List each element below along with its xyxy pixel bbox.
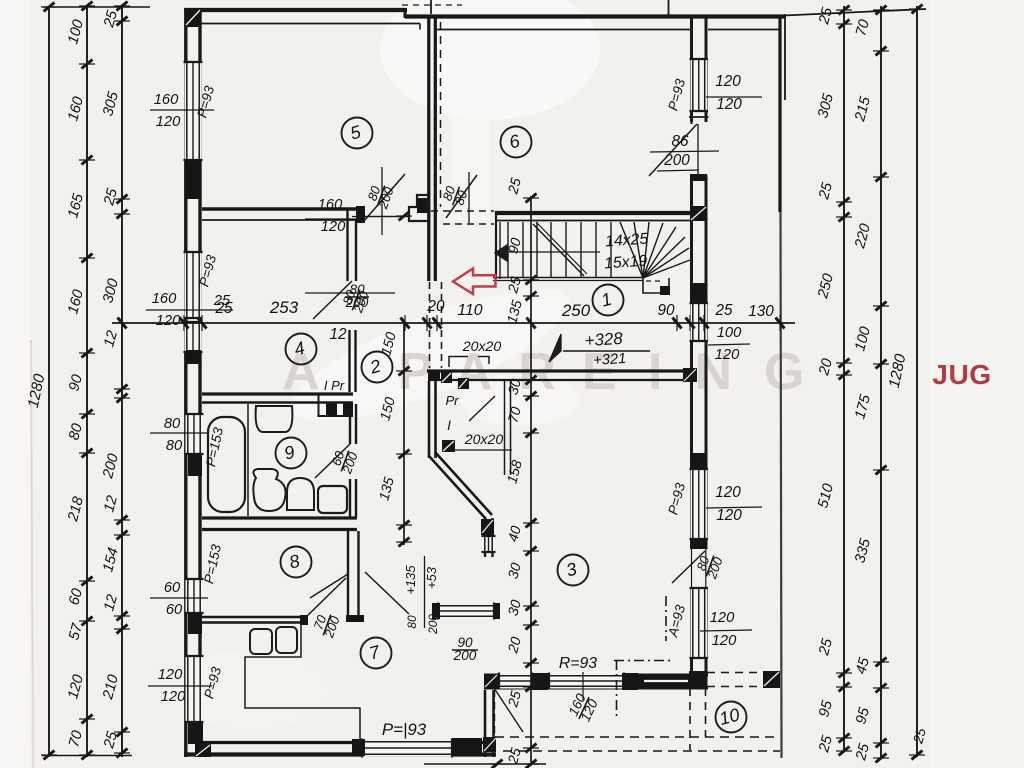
step under stairs bbox=[643, 278, 669, 293]
left wall block below window A bbox=[185, 160, 202, 199]
svg-text:250: 250 bbox=[561, 301, 591, 320]
tick left-inner y616 bbox=[117, 612, 128, 621]
niche squares with hatch bbox=[441, 372, 452, 383]
washbasin bbox=[256, 406, 293, 432]
left wall block y722 bbox=[188, 722, 203, 744]
center passage dashed x429-441 y282-368 bbox=[429, 282, 431, 368]
room circle 5 bbox=[342, 118, 373, 149]
diagonal wall to room3 bbox=[429, 456, 486, 519]
tick left-mid y64 bbox=[82, 60, 93, 69]
svg-text:120: 120 bbox=[321, 219, 346, 235]
SE wall solid right part bbox=[638, 674, 692, 688]
svg-text:120: 120 bbox=[716, 507, 742, 524]
label 60/200 bathroom door bbox=[327, 445, 361, 477]
corridor wall right hatch block bbox=[683, 368, 697, 382]
flue shaft outline 20x20 bbox=[449, 357, 489, 368]
bottom centre dim line bbox=[424, 763, 546, 765]
tick left-inner y389 bbox=[117, 385, 128, 394]
svg-text:200: 200 bbox=[345, 295, 369, 310]
svg-text:25: 25 bbox=[714, 302, 733, 319]
label 80/200 room4 door upper bbox=[345, 282, 369, 310]
svg-text:I: I bbox=[447, 418, 451, 433]
tick y323 x427 bbox=[423, 318, 432, 329]
right wall door swing lower bbox=[672, 551, 705, 583]
tick x405 y542 bbox=[399, 538, 410, 547]
sill line window E bbox=[148, 685, 212, 687]
svg-text:80: 80 bbox=[166, 438, 183, 454]
room circle 4 bbox=[286, 334, 317, 365]
left wall block y613 bbox=[188, 613, 202, 634]
tick left-inner y6 bbox=[117, 2, 128, 11]
left wall window D 60/60 bbox=[186, 579, 203, 613]
red arrow pointing left bbox=[453, 269, 496, 295]
tick y323 x437 bbox=[433, 318, 442, 329]
svg-text:+135: +135 bbox=[403, 565, 418, 595]
room circle 8 bbox=[281, 547, 312, 578]
svg-text:120: 120 bbox=[161, 689, 186, 705]
terrace door swing bbox=[494, 688, 523, 732]
tick right-2 y758 bbox=[876, 754, 887, 763]
top wall outer left segment bbox=[184, 8, 407, 12]
svg-text:Pr: Pr bbox=[446, 393, 460, 408]
svg-text:120: 120 bbox=[156, 313, 181, 329]
right wall bottom dark block bbox=[689, 671, 706, 688]
terrace dashed verticals bbox=[689, 688, 691, 750]
wall room4 right x346-357 bbox=[346, 209, 348, 281]
room circle 3 bbox=[558, 555, 589, 586]
room8 door swings bbox=[310, 574, 348, 598]
room circle 10 bbox=[716, 702, 747, 733]
left wall window A bbox=[185, 62, 202, 160]
tick left-mid y755 bbox=[82, 751, 93, 760]
svg-text:200: 200 bbox=[426, 614, 440, 635]
stairwell top wall bbox=[495, 211, 690, 215]
label 70/200 kitchen door bbox=[309, 609, 343, 641]
tick x405 y454 bbox=[399, 450, 410, 459]
toilet bbox=[253, 469, 285, 511]
door 86 swing diagonal bbox=[649, 124, 697, 176]
tick y323 x780 bbox=[776, 318, 785, 329]
niche hatch square lower bbox=[442, 440, 455, 452]
tick left-inner y732 bbox=[117, 728, 128, 737]
bathtub bbox=[208, 417, 245, 512]
bottom wall window bbox=[362, 740, 452, 757]
mid dim chain x405 bbox=[403, 323, 405, 545]
center wall dashed axis right bbox=[440, 22, 442, 207]
stairwell left wall bbox=[495, 211, 497, 279]
room3 left wall hatch block bbox=[481, 519, 494, 535]
tick x405 y525 bbox=[399, 521, 410, 530]
svg-text:14x25: 14x25 bbox=[605, 231, 649, 251]
svg-text:160: 160 bbox=[318, 197, 343, 213]
corridor wall left block bbox=[428, 371, 440, 381]
corridor-room3 window posts bbox=[432, 603, 440, 619]
partition x504-510 below corridor bbox=[504, 381, 506, 475]
niche door swing bbox=[469, 396, 495, 421]
SE wall hatch block left bbox=[484, 674, 498, 689]
sill line window B bbox=[146, 309, 233, 311]
tick y323 x405 bbox=[401, 318, 410, 329]
bath separator line bbox=[247, 404, 249, 516]
tick left-inner y398 bbox=[117, 394, 128, 403]
tick right-2 y662 bbox=[876, 658, 887, 667]
right wall cap below door bbox=[690, 174, 707, 181]
room circle 6 bbox=[501, 127, 532, 158]
label 80/200 lower right bbox=[692, 550, 726, 582]
tick left-mid y453 bbox=[82, 449, 93, 458]
tick right-2 y688 bbox=[876, 684, 887, 693]
right dim chain 1 line bbox=[843, 6, 845, 751]
stair winder fan bbox=[620, 222, 643, 278]
right wall window top 120/120 bbox=[691, 59, 708, 111]
walking line arrow bbox=[495, 245, 507, 261]
tick right-1 y375 bbox=[839, 371, 850, 380]
tick right-1 y363 bbox=[839, 359, 850, 368]
right wall dark cap y539 bbox=[691, 539, 707, 549]
svg-text:120: 120 bbox=[158, 667, 183, 683]
tick x531 y748 bbox=[526, 744, 537, 753]
tick x531 y433 bbox=[526, 429, 537, 438]
tick y323 x184 bbox=[180, 318, 189, 329]
svg-text:+53: +53 bbox=[424, 566, 439, 589]
kitchen door cap bbox=[300, 615, 308, 625]
tick right-1 y10 bbox=[839, 6, 850, 15]
svg-text:20x20: 20x20 bbox=[464, 431, 504, 447]
hatch block stair right wall bbox=[690, 206, 707, 221]
stepped pier left of center wall bbox=[409, 195, 429, 221]
svg-text:20: 20 bbox=[426, 298, 445, 315]
svg-text:160: 160 bbox=[154, 92, 179, 108]
tick left-mid y160 bbox=[82, 156, 93, 165]
svg-text:253: 253 bbox=[269, 298, 299, 317]
tick x531 y296 bbox=[526, 292, 537, 301]
label 80/200 room4 door bbox=[338, 284, 372, 316]
right wall door 86/200 bbox=[690, 122, 708, 175]
right dim outer 1280 line bbox=[916, 6, 918, 757]
svg-text:120: 120 bbox=[156, 114, 181, 130]
terrace pillar bbox=[763, 671, 780, 688]
svg-text:+321: +321 bbox=[593, 351, 627, 369]
svg-text:12: 12 bbox=[329, 326, 347, 343]
tick y323 x677 bbox=[673, 318, 682, 329]
svg-text:100: 100 bbox=[717, 325, 742, 341]
bathroom bottom wall y516-531 bbox=[202, 516, 357, 519]
tick right-1 y687 bbox=[839, 683, 850, 692]
bathroom top wall y392-404 bbox=[202, 392, 353, 395]
left wall top corner block bbox=[185, 9, 202, 27]
tick right-1 y738 bbox=[839, 734, 850, 743]
mid dim chain x531 bbox=[530, 196, 532, 762]
left wall block y455 bbox=[188, 454, 202, 476]
tick left-mid y621 bbox=[82, 617, 93, 626]
tick right-2 y364 bbox=[876, 360, 887, 369]
bathroom right wall lower piece bbox=[349, 479, 351, 517]
svg-text:160: 160 bbox=[152, 291, 177, 307]
room circle 9 bbox=[276, 438, 307, 469]
label 80/80 door room6 side bbox=[438, 181, 471, 209]
WC niche dark squares bbox=[326, 403, 337, 415]
svg-text:110: 110 bbox=[457, 302, 482, 319]
SE vertical wall x484-494 bbox=[484, 690, 487, 757]
watermark SPARE ING bbox=[282, 343, 836, 401]
right dim top connector bbox=[784, 9, 926, 16]
right wall window 120/120 mid bbox=[691, 469, 708, 539]
right wall dark sill above landing window bbox=[691, 283, 708, 303]
bidet bbox=[287, 478, 314, 510]
corridor-room3 window bbox=[438, 604, 494, 619]
bottom left chain connector bbox=[42, 755, 132, 757]
right wall window top sill bbox=[689, 116, 709, 118]
tick left-mid y258 bbox=[82, 254, 93, 263]
top wall inner left segment bbox=[201, 23, 420, 25]
top wall small dashes bbox=[402, 4, 462, 6]
label 80/200 door room5 bbox=[363, 180, 397, 212]
top wall inner right segment bbox=[437, 29, 690, 31]
right edge wall thick top bbox=[778, 16, 781, 212]
tick y323 x704 bbox=[700, 318, 709, 329]
kitchen counter outline bbox=[245, 625, 360, 741]
tick y323 x690 bbox=[686, 318, 695, 329]
terrace dashed top lines bbox=[707, 672, 762, 674]
wall room5 doorway posts and swings bbox=[356, 206, 365, 223]
label 160/120 rotated bbox=[565, 691, 601, 725]
tick x531 y396 bbox=[526, 392, 537, 401]
svg-text:I Pr: I Pr bbox=[324, 378, 345, 393]
tick right-1 y217 bbox=[839, 213, 850, 222]
tick x531 y625 bbox=[526, 621, 537, 630]
tick right-2 y743 bbox=[876, 739, 887, 748]
svg-text:80: 80 bbox=[164, 416, 181, 432]
top wall outer right segment bbox=[405, 14, 786, 18]
room8 wall bottom cap bbox=[346, 615, 364, 622]
WC niche walls bbox=[318, 394, 320, 417]
tick right-1 y202 bbox=[839, 198, 850, 207]
svg-text:120: 120 bbox=[715, 484, 741, 501]
svg-text:60: 60 bbox=[166, 602, 183, 618]
bottom wall window left post bbox=[352, 739, 365, 756]
tick left-mid y719 bbox=[82, 715, 93, 724]
tick right outer top bbox=[912, 5, 923, 14]
center wall x427-437 bbox=[427, 16, 430, 281]
terrace dashed bottom lines bbox=[495, 736, 780, 738]
tick right-2 y470 bbox=[876, 466, 887, 475]
stair walking line bbox=[506, 251, 600, 253]
right wall dark block y453 bbox=[691, 453, 705, 469]
tick left-mid y353 bbox=[82, 349, 93, 358]
svg-text:15x19: 15x19 bbox=[604, 253, 648, 273]
left wall window B bbox=[185, 252, 202, 318]
level fraction +135/+53 bbox=[424, 556, 426, 628]
left exterior wall outer line bbox=[184, 8, 187, 757]
tick right-2 y177 bbox=[876, 173, 887, 182]
tick x405 y371 bbox=[399, 367, 410, 376]
tick left-mid y414 bbox=[82, 410, 93, 419]
svg-text:120: 120 bbox=[716, 96, 742, 113]
center wall lower x428-436 y381-458 bbox=[428, 381, 431, 458]
sill line window D bbox=[150, 597, 208, 599]
SE wall post 2 bbox=[622, 673, 638, 690]
svg-text:+328: +328 bbox=[584, 329, 624, 351]
room circle 2 bbox=[362, 352, 393, 383]
tick right outer bottom bbox=[912, 751, 923, 760]
top wall inner far right segment bbox=[708, 29, 779, 31]
svg-text:120: 120 bbox=[715, 73, 741, 90]
tick x531 y687 bbox=[526, 683, 537, 692]
tick left-mid y581 bbox=[82, 577, 93, 586]
tick left-inner y214 bbox=[117, 210, 128, 219]
right dim chain 2 line bbox=[880, 6, 882, 758]
tick left-inner y629 bbox=[117, 625, 128, 634]
tick x531 y551 bbox=[526, 547, 537, 556]
tick right-2 y51 bbox=[876, 47, 887, 56]
tick x531 y380 bbox=[526, 376, 537, 385]
svg-text:86: 86 bbox=[671, 133, 689, 150]
bathroom door swing bbox=[315, 444, 350, 478]
svg-text:90: 90 bbox=[657, 302, 675, 319]
tick left-inner y21 bbox=[117, 17, 128, 26]
label 90/200 bbox=[452, 635, 478, 663]
kitchen door swing bbox=[306, 578, 346, 617]
svg-text:120: 120 bbox=[710, 610, 735, 626]
svg-text:60: 60 bbox=[164, 580, 181, 596]
tick right-1 y24 bbox=[839, 20, 850, 29]
tick right-1 y751 bbox=[839, 747, 850, 756]
SE wall window 2 bbox=[549, 674, 624, 689]
svg-text:120: 120 bbox=[712, 633, 737, 649]
tick left-inner y520 bbox=[117, 516, 128, 525]
right wall window 120/120 bottom A=93 bbox=[691, 588, 708, 658]
svg-text:20x20: 20x20 bbox=[462, 338, 502, 354]
tick right-1 y673 bbox=[839, 669, 850, 678]
tick y323 x202 bbox=[198, 318, 207, 329]
page crease line bbox=[31, 340, 33, 768]
svg-text:200: 200 bbox=[663, 152, 690, 169]
SE wall window 1 bbox=[499, 674, 532, 689]
kitchen top wall y615-624 bbox=[202, 616, 306, 619]
stair treads bbox=[507, 222, 509, 277]
tick y323 x122 bbox=[118, 318, 127, 329]
tick x531 y606 bbox=[526, 602, 537, 611]
tick right-2 y10 bbox=[876, 6, 887, 15]
terrace dashed vertical x494 bbox=[494, 690, 496, 734]
door room4 swing bbox=[313, 281, 352, 319]
dim line short above stairs bbox=[352, 216, 410, 218]
left wall block y350 bbox=[186, 350, 201, 364]
tick x531 y663 bbox=[526, 659, 537, 668]
tick right-2 y306 bbox=[876, 302, 887, 311]
sill line window C bbox=[150, 432, 208, 434]
tick x531 y523 bbox=[526, 519, 537, 528]
SE wall post bbox=[532, 673, 548, 690]
tick left-inner y753 bbox=[117, 749, 128, 758]
svg-text:80: 80 bbox=[405, 615, 419, 629]
svg-text:120: 120 bbox=[715, 347, 740, 363]
svg-text:JUG: JUG bbox=[932, 358, 991, 390]
left wall window E 120/120 bbox=[186, 656, 203, 722]
svg-text:P=|93: P=|93 bbox=[382, 720, 427, 739]
SE lower wall y673-690 bbox=[484, 674, 708, 677]
left dim top connector bbox=[43, 6, 150, 8]
main horizontal dim line y323 bbox=[112, 322, 795, 324]
svg-text:200: 200 bbox=[453, 648, 477, 663]
tick left-inner y199 bbox=[117, 195, 128, 204]
corridor wall y369-381 bbox=[427, 369, 697, 372]
svg-text:130: 130 bbox=[748, 303, 774, 320]
tick left-mid y6 bbox=[82, 2, 93, 11]
sill line window A bbox=[150, 109, 214, 111]
tick left-inner y535 bbox=[117, 531, 128, 540]
shower square bbox=[318, 486, 347, 513]
right edge thin line lower bbox=[781, 212, 782, 758]
kitchen sink right bbox=[276, 627, 297, 653]
bottom left corner hatch block bbox=[195, 744, 211, 757]
tick x531 y280 bbox=[526, 276, 537, 285]
room3 left wall x484-493 bbox=[484, 518, 486, 557]
dashed opening lines below room5 wall bbox=[431, 210, 494, 212]
svg-text:25: 25 bbox=[214, 300, 233, 317]
kitchen sink left bbox=[250, 629, 272, 654]
right wall of building (x690-707) bbox=[690, 18, 693, 688]
right wall lower door opening bbox=[690, 549, 709, 587]
room circle 7 bbox=[361, 638, 392, 669]
bathroom right wall x349-356 bbox=[349, 404, 351, 444]
door swing right of center wall bbox=[446, 175, 477, 218]
section mark above top wall center bbox=[430, 0, 432, 14]
left dim chain outer 1280 line bbox=[48, 6, 50, 757]
room circle 1 bbox=[593, 285, 624, 316]
axis dash-dot marks bbox=[665, 596, 667, 641]
bottom wall outer line bbox=[184, 752, 496, 756]
bottom wall inner line bbox=[201, 741, 484, 744]
room3 left wall window piece bbox=[483, 536, 495, 552]
svg-text:R=93: R=93 bbox=[559, 655, 597, 672]
tick x531 y198 bbox=[526, 194, 537, 203]
left dim chain inner line bbox=[121, 6, 123, 757]
right wall landing window 100/120 bbox=[691, 303, 708, 341]
wall room5/room4 y207-221 bbox=[202, 207, 356, 211]
section mark above top wall right bbox=[668, 0, 670, 16]
stairs bottom landing line bbox=[493, 277, 643, 279]
left dim chain middle line bbox=[86, 6, 88, 757]
wall room2 left x349-356 y330-392 bbox=[348, 330, 350, 392]
tick y323 x531 bbox=[527, 318, 536, 329]
left exterior wall inner line bbox=[198, 8, 201, 757]
room8 right wall x347-359 bbox=[347, 531, 349, 622]
SE corner hatch block bbox=[483, 737, 496, 752]
scan light blobs bbox=[380, 0, 600, 120]
bottom wall window right post bbox=[452, 738, 482, 756]
left wall window C 80/80 bbox=[186, 414, 203, 454]
